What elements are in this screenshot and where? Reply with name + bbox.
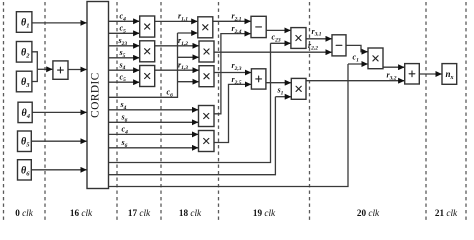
- wire s5 to mult2: [109, 57, 140, 59]
- wire s4 to mult3: [109, 69, 140, 71]
- operator times M8: [204, 138, 209, 143]
- wire c6 branch to mult4: [178, 32, 198, 34]
- wire r11 mult1 to mult4: [155, 20, 198, 22]
- svg-text:r2,3: r2,3: [232, 61, 242, 72]
- svg-text:CORDIC: CORDIC: [90, 72, 102, 118]
- svg-text:r3,1: r3,1: [312, 27, 322, 38]
- wire r24 mult7 to sub1: [214, 34, 251, 114]
- register theta3: [16, 71, 32, 92]
- wire s23 to mult2: [109, 45, 140, 47]
- svg-text:18 clk: 18 clk: [179, 208, 202, 218]
- multiplier M4 r11*c6: [198, 17, 213, 38]
- multiplier MC *c1: [368, 48, 383, 69]
- clock boundary dashed line 1: [44, 2, 46, 220]
- clock boundary dashed line 6: [425, 2, 427, 220]
- wire s6 to mult7: [109, 121, 199, 123]
- clock boundary dashed line 7: [465, 2, 467, 220]
- wire r23 mult6 to add1: [214, 72, 251, 74]
- svg-text:20 clk: 20 clk: [357, 208, 380, 218]
- register theta2: [16, 42, 32, 63]
- wire s6 to mult8: [109, 147, 199, 149]
- svg-text:16 clk: 16 clk: [70, 208, 93, 218]
- multiplier MA *c23: [291, 28, 306, 49]
- svg-text:17 clk: 17 clk: [128, 208, 151, 218]
- operator plus A1: [256, 76, 262, 82]
- wire r32 multB to addF: [306, 80, 404, 82]
- subtractor S1 r21-r24: [251, 16, 266, 37]
- operator times MC: [373, 56, 378, 61]
- wire s4 to mult7: [109, 109, 199, 111]
- multiplier MB *s1: [291, 78, 306, 99]
- register theta1: [16, 12, 32, 33]
- wire r22 mult5 to sub2: [214, 51, 332, 53]
- wire add1 to multB: [266, 82, 291, 84]
- multiplier M7 s4*s6: [199, 106, 215, 127]
- operator times M6: [204, 74, 209, 79]
- wire c5 to mult1: [109, 32, 140, 34]
- adder AF final: [405, 64, 420, 84]
- operator times M2: [145, 49, 150, 54]
- wire junction to adder: [37, 68, 52, 70]
- wire theta5 to CORDIC: [31, 140, 86, 142]
- subtractor S2 r31-r22: [332, 35, 346, 56]
- svg-text:21 clk: 21 clk: [435, 208, 458, 218]
- wire c5 to mult3: [109, 81, 140, 83]
- wire addF to nx: [419, 73, 441, 75]
- operator minus S1: [256, 26, 262, 28]
- output register nx: [442, 64, 457, 85]
- wire c1 into multC: [348, 63, 368, 65]
- register theta5: [18, 131, 32, 152]
- multiplier M2 s23*s5: [140, 41, 155, 62]
- multiplier M5 r12*c6: [199, 41, 214, 62]
- operator times M4: [203, 25, 208, 30]
- multiplier M6 r13*c6: [199, 66, 214, 87]
- operator plus AF: [409, 71, 415, 77]
- wire s1 into multB: [275, 96, 291, 98]
- wire theta6 to CORDIC: [31, 169, 86, 171]
- svg-text:c1: c1: [353, 53, 360, 64]
- wire c1 feedback: [109, 64, 349, 187]
- wire c4 to mult1: [109, 20, 140, 22]
- wire c6 branch to mult5: [178, 56, 199, 58]
- multiplier M1 c4*c5: [140, 16, 155, 37]
- wire sub1 to multA: [266, 29, 290, 31]
- wire c23 feedback: [109, 43, 271, 162]
- wire s1 feedback: [109, 97, 276, 175]
- adder theta2+theta3: [53, 61, 68, 79]
- wire c4 to mult8: [109, 133, 199, 135]
- operator times M3: [145, 73, 150, 78]
- multiplier M8 c4*s6: [199, 131, 215, 152]
- wire theta3 to junction: [32, 69, 37, 81]
- wire sub2 to multC: [346, 45, 368, 51]
- wire adder to CORDIC: [68, 69, 87, 71]
- wire r25 mult8 to add1: [214, 84, 251, 142]
- wire multC to addF: [383, 66, 404, 68]
- CORDIC block: [87, 2, 109, 189]
- svg-text:19 clk: 19 clk: [253, 208, 276, 218]
- operator times M7: [204, 113, 209, 118]
- operator plus adder theta2+theta3: [58, 67, 64, 73]
- clock boundary dashed line 2: [116, 2, 118, 220]
- clock boundary dashed line 4: [218, 2, 220, 220]
- clock boundary dashed line 3: [160, 2, 162, 220]
- svg-text:s1: s1: [277, 86, 284, 97]
- wire c6 bus: [109, 33, 178, 97]
- wire r31 multA to sub2: [306, 38, 332, 40]
- adder A1 r23+r25: [251, 69, 266, 89]
- operator times M5: [204, 49, 209, 54]
- wire c6 branch to mult6: [178, 81, 199, 83]
- wire r12 mult2 to mult5: [155, 45, 199, 47]
- clock boundary dashed line 0: [3, 2, 5, 220]
- wire c23 into multA: [271, 42, 291, 44]
- register theta6: [18, 160, 32, 180]
- operator times M1: [145, 24, 150, 29]
- clock boundary dashed line 5: [309, 2, 311, 220]
- multiplier M3 s4*c5: [140, 66, 155, 87]
- svg-text:c23: c23: [272, 33, 281, 44]
- operator times MA: [296, 35, 301, 40]
- svg-text:r3,2: r3,2: [387, 71, 397, 82]
- wire theta1 to CORDIC: [32, 22, 87, 24]
- wire r13 mult3 to mult6: [155, 69, 199, 71]
- svg-text:0 clk: 0 clk: [15, 208, 34, 218]
- register theta4: [18, 102, 32, 122]
- wire r21 mult4 to sub1: [213, 20, 251, 22]
- operator minus S2: [336, 44, 342, 46]
- operator times MB: [296, 86, 301, 91]
- wire theta2 to junction: [32, 52, 37, 70]
- wire theta4 to CORDIC: [32, 111, 86, 113]
